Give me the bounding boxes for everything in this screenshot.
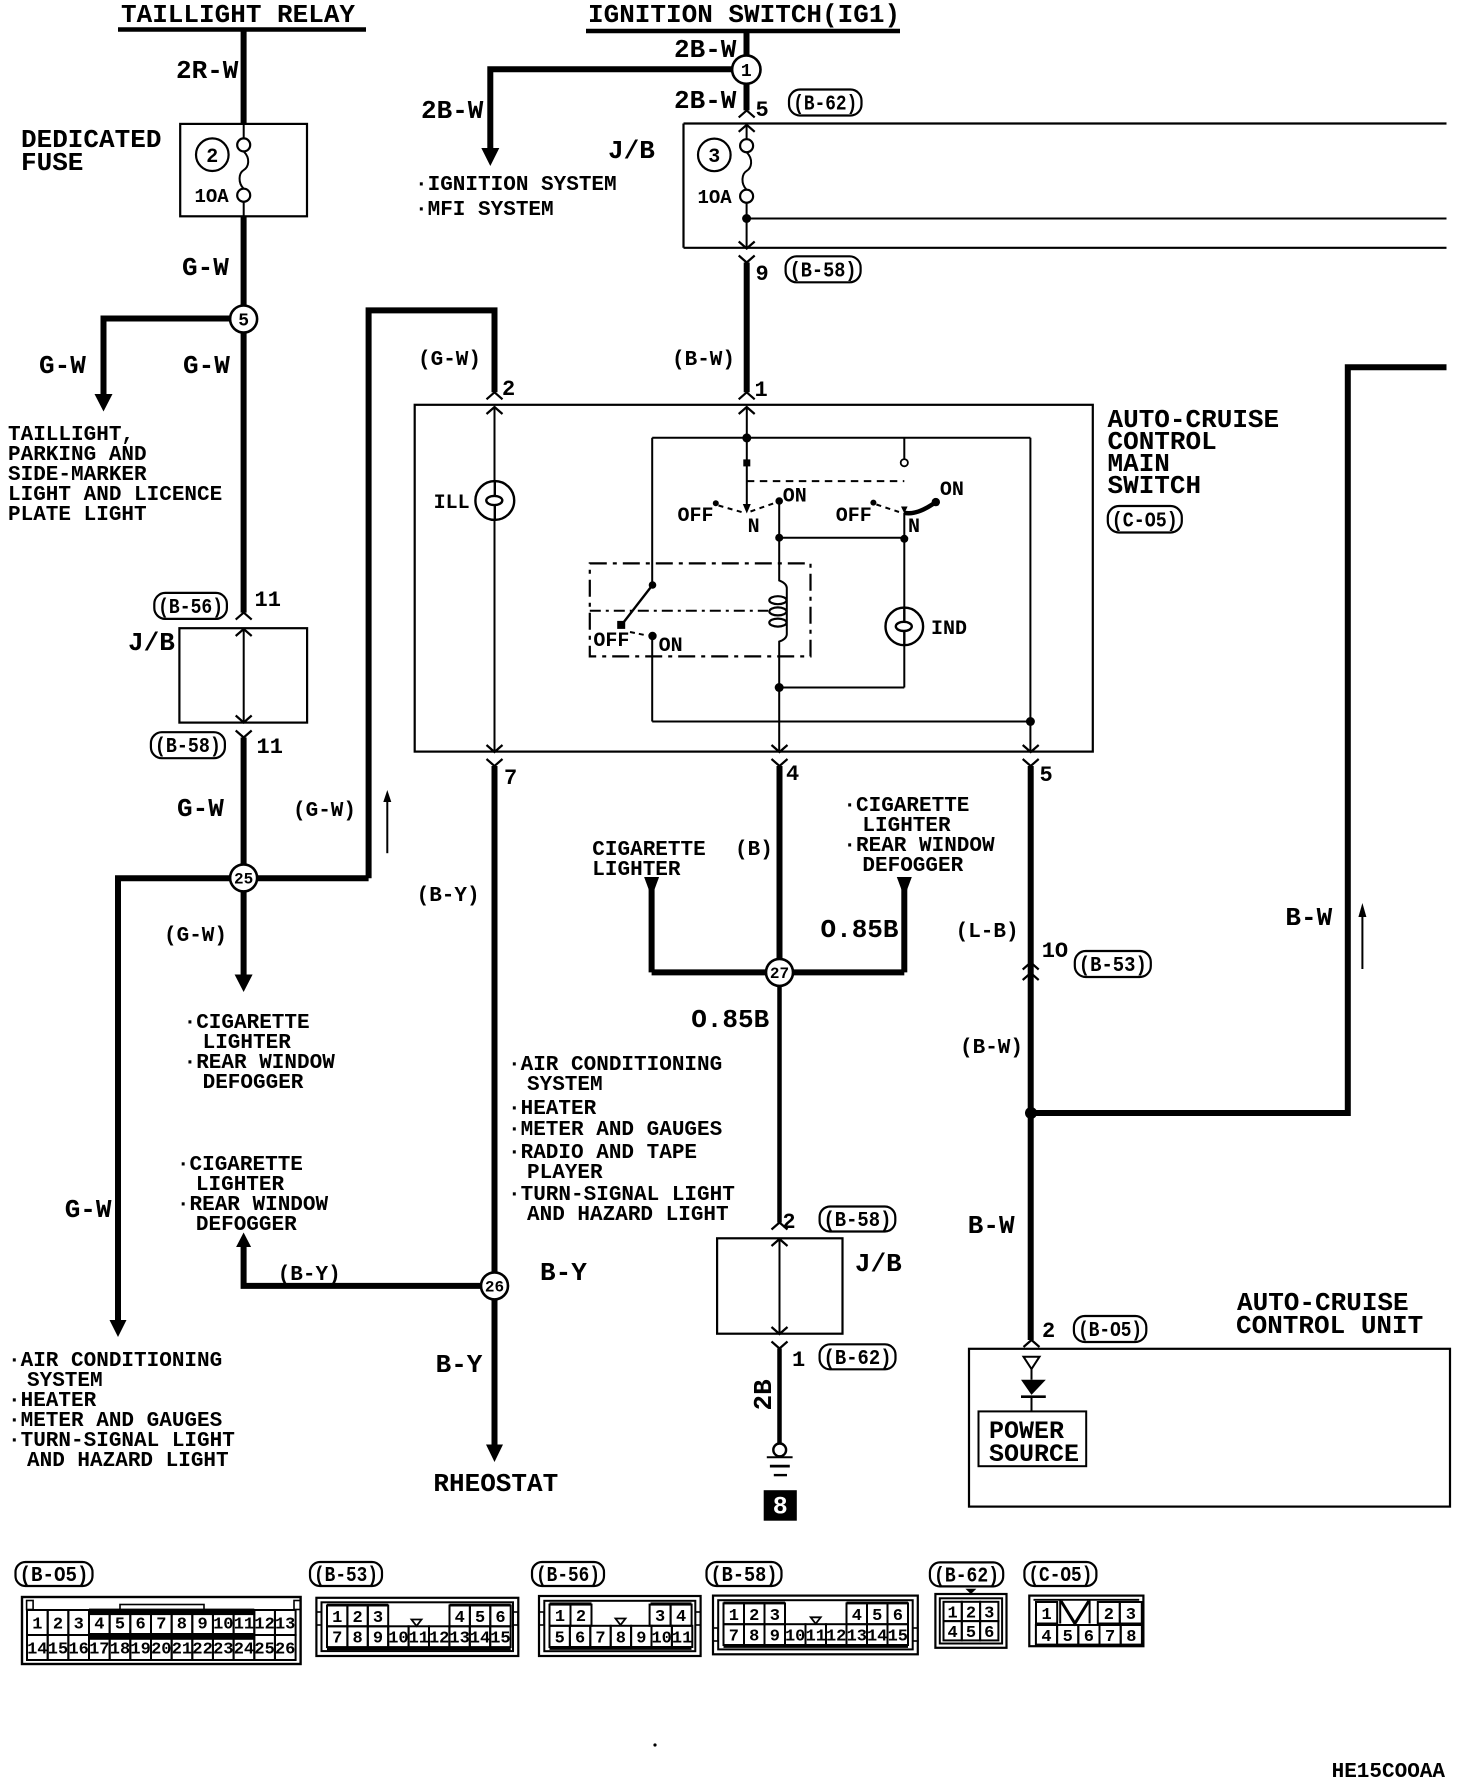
wire (G-W) riser to switch pin 2 (369, 310, 495, 878)
svg-text:B-Y: B-Y (436, 1350, 483, 1380)
svg-text:9: 9 (636, 1629, 646, 1648)
svg-text:ON: ON (659, 635, 683, 658)
fuse 10A (dedicated) (237, 138, 250, 151)
svg-text:B-W: B-W (1285, 903, 1332, 933)
svg-text:8: 8 (773, 1493, 788, 1522)
junction block J/B (left) (179, 628, 307, 722)
svg-text:11: 11 (255, 588, 281, 613)
svg-text:23: 23 (213, 1641, 233, 1660)
svg-text:OFF: OFF (678, 505, 714, 528)
svg-text:J/B: J/B (608, 136, 655, 166)
svg-text:G-W: G-W (183, 351, 230, 381)
svg-text:6: 6 (1084, 1628, 1094, 1647)
relay box (dash-dot) (590, 563, 811, 656)
svg-text:5: 5 (238, 311, 249, 331)
svg-text:4: 4 (1041, 1628, 1051, 1647)
svg-text:10: 10 (213, 1616, 233, 1635)
svg-text:6: 6 (893, 1607, 903, 1626)
svg-text:3: 3 (655, 1608, 665, 1627)
connector B-62 crossing (bottom) (772, 1327, 788, 1334)
svg-text:5: 5 (1063, 1628, 1073, 1647)
svg-text:10: 10 (785, 1628, 805, 1647)
wire (B) pin4 down to node 27 (777, 766, 783, 972)
svg-text:3: 3 (770, 1607, 780, 1626)
svg-text:10: 10 (388, 1630, 408, 1649)
svg-text:8: 8 (352, 1630, 362, 1649)
node 26 splice (481, 1272, 508, 1299)
svg-text:4: 4 (94, 1616, 104, 1635)
svg-text:1: 1 (1041, 1606, 1051, 1625)
svg-text:SYSTEM: SYSTEM (527, 1074, 603, 1097)
wire G-W down-left to air conditioning (110, 1320, 127, 1337)
svg-text:13: 13 (449, 1630, 469, 1649)
svg-text:7: 7 (156, 1616, 166, 1635)
svg-text:5: 5 (756, 98, 769, 123)
svg-text:5: 5 (555, 1629, 565, 1648)
svg-text:2B: 2B (749, 1379, 779, 1411)
svg-text:25: 25 (254, 1641, 274, 1660)
svg-text:19: 19 (130, 1641, 150, 1660)
svg-text:IND: IND (931, 618, 967, 641)
svg-text:(B-O5): (B-O5) (1078, 1320, 1142, 1343)
node 27 splice (766, 959, 793, 986)
svg-text:3: 3 (373, 1609, 383, 1628)
wire thin arrow up (G-W) (386, 800, 388, 853)
pill B-62 top (789, 90, 862, 116)
pill B-62 bottom-row (930, 1562, 1003, 1586)
node 1 splice (732, 55, 760, 83)
grounding point 8 (764, 1490, 797, 1521)
svg-text:(B-62): (B-62) (793, 94, 857, 117)
svg-text:4: 4 (786, 762, 799, 787)
svg-text:10: 10 (651, 1629, 671, 1648)
svg-text:9: 9 (756, 262, 769, 287)
wire 2B to ground (777, 1349, 782, 1444)
dashed link between switches (747, 480, 905, 482)
svg-text:1: 1 (755, 378, 768, 403)
manual switch (left) (746, 407, 748, 505)
wire 0.85B node27 to J/B (777, 972, 782, 1222)
svg-text:11: 11 (234, 1616, 254, 1635)
svg-text:N: N (748, 516, 760, 539)
svg-text:14: 14 (470, 1630, 490, 1649)
svg-text:15: 15 (490, 1630, 510, 1649)
svg-text:(B): (B) (735, 839, 773, 862)
svg-text:6: 6 (575, 1629, 585, 1648)
svg-text:3: 3 (74, 1616, 84, 1635)
pill B-58 top (786, 256, 861, 282)
svg-text:2: 2 (749, 1607, 759, 1626)
svg-text:(B-62): (B-62) (934, 1565, 999, 1588)
svg-text:7: 7 (595, 1629, 605, 1648)
fuse box DEDICATED FUSE (180, 124, 307, 216)
svg-text:2: 2 (352, 1609, 362, 1628)
wire up-arrow to cigarette lighter block 2 (236, 1233, 251, 1248)
svg-text:N: N (908, 516, 920, 539)
wire 2B-W ignition feed (744, 31, 750, 110)
wire B-W loop to top right (1031, 367, 1447, 1113)
svg-text:OFF: OFF (593, 630, 629, 653)
pin 1 entry (739, 392, 755, 399)
svg-text:B-Y: B-Y (540, 1258, 587, 1288)
svg-text:J/B: J/B (128, 628, 175, 658)
connector B-05 crossing (1024, 1340, 1040, 1347)
svg-text:OFF: OFF (836, 505, 872, 528)
svg-text:·IGNITION SYSTEM: ·IGNITION SYSTEM (415, 174, 617, 197)
svg-text:ILL: ILL (434, 492, 470, 515)
wire 0.85B bus node 27 (652, 969, 905, 975)
svg-text:AND HAZARD LIGHT: AND HAZARD LIGHT (527, 1204, 729, 1227)
connector B-56 crossing (236, 613, 252, 620)
svg-text:(B-58): (B-58) (711, 1565, 778, 1588)
svg-text:(B-58): (B-58) (790, 260, 857, 283)
wire (L-B)/B-W pin5 down (1028, 766, 1034, 1340)
svg-text:(B-62): (B-62) (824, 1348, 892, 1371)
pill B-53 bottom-row (310, 1562, 382, 1586)
svg-text:(B-56): (B-56) (536, 1565, 600, 1588)
svg-text:AND HAZARD LIGHT: AND HAZARD LIGHT (27, 1450, 229, 1473)
svg-text:12: 12 (254, 1616, 274, 1635)
svg-text:15: 15 (888, 1628, 908, 1647)
wire B-Y node26 to rheostat (492, 1286, 498, 1446)
svg-text:PLAYER: PLAYER (527, 1162, 603, 1185)
svg-text:6: 6 (135, 1616, 145, 1635)
svg-text:O.85B: O.85B (821, 915, 899, 945)
svg-text:5: 5 (115, 1616, 125, 1635)
wire rear window defogger arm (897, 877, 912, 890)
svg-text:8: 8 (616, 1629, 626, 1648)
pill B-05 bottom-row (16, 1562, 93, 1586)
svg-text:2R-W: 2R-W (176, 56, 239, 86)
wire B-W J/B to main switch pin 1 (744, 263, 750, 393)
wire G-W fuse to node 5 (241, 216, 247, 612)
wire bus top inside switch (652, 437, 1030, 439)
pill C-05 (1108, 506, 1182, 533)
svg-text:(G-W): (G-W) (418, 349, 481, 372)
svg-text:SWITCH: SWITCH (1108, 471, 1202, 501)
svg-text:G-W: G-W (39, 351, 86, 381)
svg-text:12: 12 (826, 1628, 846, 1647)
svg-text:(C-O5): (C-O5) (1112, 510, 1178, 533)
svg-text:DEFOGGER: DEFOGGER (862, 855, 963, 878)
pill B-58 left (151, 732, 225, 758)
pill B-58 bottom (820, 1207, 896, 1232)
svg-text:DEFOGGER: DEFOGGER (203, 1072, 304, 1095)
svg-text:(B-53): (B-53) (1079, 955, 1147, 978)
wire junction inside J/B (747, 218, 1447, 220)
svg-text:(B-W): (B-W) (960, 1037, 1023, 1060)
svg-text:11: 11 (806, 1628, 826, 1647)
svg-text:11: 11 (257, 735, 283, 760)
svg-text:2: 2 (502, 377, 515, 402)
pill C-05 bottom-row (1024, 1562, 1096, 1586)
wire right bus inside switch (1029, 438, 1031, 752)
svg-text:4: 4 (676, 1608, 686, 1627)
pin symbol into control unit (1024, 1357, 1040, 1369)
svg-text:FUSE: FUSE (21, 148, 83, 178)
wire (B-Y) pin7 down to node 26 (492, 766, 498, 1286)
svg-text:18: 18 (110, 1641, 130, 1660)
pill B-53 mid (1075, 951, 1151, 977)
svg-text:G-W: G-W (177, 794, 224, 824)
svg-text:9: 9 (197, 1616, 207, 1635)
svg-text:13: 13 (275, 1616, 295, 1635)
svg-text:4: 4 (947, 1624, 957, 1643)
wire pin4 junction (775, 683, 784, 692)
svg-text:RHEOSTAT: RHEOSTAT (433, 1469, 558, 1499)
svg-text:11: 11 (409, 1630, 429, 1649)
ground (773, 1444, 786, 1457)
svg-text:24: 24 (234, 1641, 254, 1660)
wire G-W to node 25 (241, 738, 247, 879)
junction block J/B (top) (684, 124, 1447, 248)
svg-text:PLATE LIGHT: PLATE LIGHT (8, 504, 147, 527)
wire G-W bus at node 25 (118, 878, 369, 1322)
pin 7 exit (487, 745, 503, 752)
wire cigarette lighter arm (644, 877, 659, 890)
svg-text:1: 1 (32, 1616, 42, 1635)
pin 2 entry (487, 392, 503, 399)
wire (G-W) arrow below node 25 (241, 878, 247, 976)
diode D1 (1021, 1380, 1046, 1395)
connector B-58 crossing (top) (739, 242, 755, 249)
svg-text:1: 1 (332, 1609, 342, 1628)
svg-text:2: 2 (206, 146, 218, 169)
svg-text:(B-W): (B-W) (672, 349, 735, 372)
svg-text:1O: 1O (1042, 939, 1068, 964)
junction block J/B (bottom) (717, 1238, 842, 1333)
pill B-56 bottom-row (532, 1562, 604, 1586)
svg-text:6: 6 (984, 1624, 994, 1643)
pill B-05 mid (1074, 1316, 1146, 1342)
svg-text:9: 9 (373, 1630, 383, 1649)
svg-text:LIGHTER: LIGHTER (592, 859, 681, 882)
svg-text:1: 1 (741, 62, 752, 82)
svg-text:5: 5 (475, 1609, 485, 1628)
wire G-W branch to taillight (104, 319, 244, 397)
fuse 10A (J/B) (740, 139, 753, 152)
svg-text:11: 11 (672, 1629, 692, 1648)
svg-text:ON: ON (783, 486, 807, 509)
pill B-62 bottom (820, 1344, 896, 1369)
svg-text:27: 27 (770, 965, 789, 983)
svg-text:·MFI SYSTEM: ·MFI SYSTEM (415, 199, 554, 222)
pin 5 exit (1023, 745, 1039, 752)
connector B-53 crossing (1023, 963, 1039, 970)
svg-text:4: 4 (852, 1607, 862, 1626)
svg-text:2: 2 (1042, 1319, 1055, 1344)
svg-text:IGNITION SWITCH(IG1): IGNITION SWITCH(IG1) (588, 0, 900, 30)
svg-text:(L-B): (L-B) (956, 921, 1019, 944)
svg-text:·HEATER: ·HEATER (508, 1098, 597, 1121)
svg-text:26: 26 (485, 1279, 504, 1297)
svg-text:4: 4 (455, 1609, 465, 1628)
svg-text:2B-W: 2B-W (674, 35, 737, 65)
svg-text:O.85B: O.85B (691, 1005, 769, 1035)
wire 2B-W branch to ignition system (490, 69, 733, 150)
svg-text:3: 3 (1126, 1606, 1136, 1625)
svg-text:1: 1 (792, 1348, 805, 1373)
svg-text:7: 7 (332, 1630, 342, 1649)
indicator switch (right) (903, 438, 905, 460)
svg-text:(B-O5): (B-O5) (20, 1565, 89, 1588)
svg-text:(B-58): (B-58) (823, 1210, 891, 1233)
svg-text:8: 8 (177, 1616, 187, 1635)
box AUTO-CRUISE CONTROL MAIN SWITCH (415, 405, 1093, 752)
svg-text:(B-58): (B-58) (155, 736, 221, 759)
svg-text:(B-53): (B-53) (314, 1565, 378, 1588)
svg-text:(B-56): (B-56) (158, 597, 223, 620)
relay coil (779, 501, 787, 752)
ILL lamp column (494, 407, 496, 481)
svg-text:2: 2 (576, 1608, 586, 1627)
svg-text:CONTROL UNIT: CONTROL UNIT (1236, 1311, 1423, 1341)
svg-text:21: 21 (172, 1641, 192, 1660)
svg-text:22: 22 (192, 1641, 212, 1660)
svg-text:1: 1 (729, 1607, 739, 1626)
svg-text:9: 9 (770, 1628, 780, 1647)
svg-text:1: 1 (555, 1608, 565, 1627)
connector B-62 crossing (top) (739, 110, 755, 117)
svg-text:ON: ON (940, 479, 964, 502)
svg-text:6: 6 (495, 1609, 505, 1628)
lamp IND (886, 608, 924, 646)
svg-text:8: 8 (1126, 1628, 1136, 1647)
wire thin arrow up (B-W) (1361, 915, 1363, 969)
svg-text:13: 13 (847, 1628, 867, 1647)
svg-text:G-W: G-W (182, 253, 229, 283)
svg-text:5: 5 (872, 1607, 882, 1626)
relay contact (left column) (651, 438, 653, 722)
svg-text:2: 2 (53, 1616, 63, 1635)
svg-text:1OA: 1OA (195, 186, 230, 208)
svg-text:7: 7 (1105, 1628, 1115, 1647)
svg-text:16: 16 (68, 1641, 88, 1660)
svg-text:25: 25 (234, 871, 253, 889)
svg-text:26: 26 (275, 1641, 295, 1660)
lamp ILL (475, 481, 514, 520)
wire 2R-W from taillight relay (241, 31, 247, 125)
svg-text:14: 14 (867, 1628, 887, 1647)
svg-text:B-W: B-W (968, 1211, 1015, 1241)
pill B-56 (154, 593, 227, 619)
box POWER SOURCE (979, 1411, 1087, 1466)
connector B-58 crossing (bottom) (772, 1223, 788, 1230)
svg-text:7: 7 (729, 1628, 739, 1647)
pin 4 exit (772, 745, 788, 752)
svg-text:2: 2 (782, 1210, 795, 1235)
svg-text:15: 15 (48, 1641, 68, 1660)
svg-text:8: 8 (749, 1628, 759, 1647)
svg-text:(B-Y): (B-Y) (417, 885, 480, 908)
svg-text:3: 3 (708, 146, 720, 169)
svg-text:(G-W): (G-W) (293, 800, 356, 823)
svg-text:(G-W): (G-W) (164, 925, 227, 948)
svg-text:TAILLIGHT RELAY: TAILLIGHT RELAY (121, 0, 355, 30)
svg-text:(C-O5): (C-O5) (1028, 1565, 1092, 1588)
svg-text:7: 7 (504, 766, 517, 791)
svg-text:J/B: J/B (855, 1249, 902, 1279)
svg-text:5: 5 (966, 1624, 976, 1643)
svg-text:14: 14 (27, 1641, 47, 1660)
svg-text:17: 17 (89, 1641, 109, 1660)
node 25 splice (230, 864, 257, 891)
node 5 splice (230, 306, 257, 333)
svg-text:1OA: 1OA (698, 187, 733, 209)
svg-text:2: 2 (1104, 1606, 1114, 1625)
svg-text:12: 12 (429, 1630, 449, 1649)
svg-text:2B-W: 2B-W (674, 86, 737, 116)
connector B-58 crossing (left) (236, 716, 252, 723)
svg-text:G-W: G-W (65, 1195, 112, 1225)
svg-text:SOURCE: SOURCE (989, 1440, 1079, 1469)
svg-text:20: 20 (151, 1641, 171, 1660)
svg-text:DEFOGGER: DEFOGGER (196, 1214, 297, 1237)
svg-text:·METER AND GAUGES: ·METER AND GAUGES (508, 1119, 722, 1142)
pill B-58 bottom-row (707, 1562, 782, 1586)
svg-text:2B-W: 2B-W (421, 96, 484, 126)
svg-text:5: 5 (1040, 763, 1053, 788)
svg-text:(B-Y): (B-Y) (278, 1264, 341, 1287)
svg-text:HE15COOAA: HE15COOAA (1332, 1761, 1446, 1784)
